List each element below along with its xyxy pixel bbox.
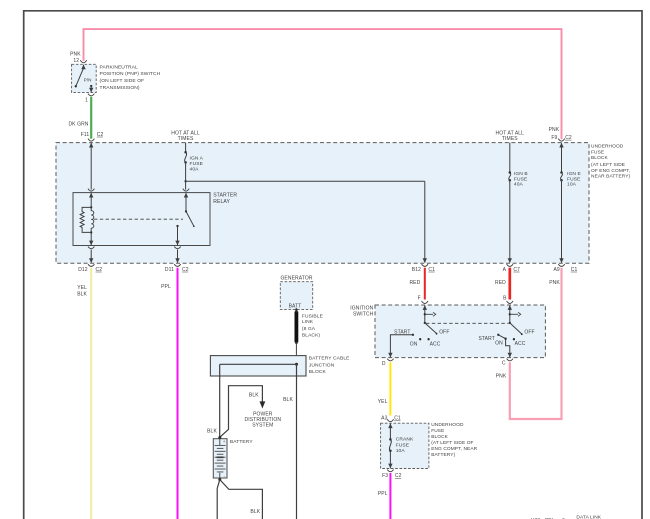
svg-text:POSITION (PNP) SWITCH: POSITION (PNP) SWITCH [100,71,161,77]
svg-text:IGNITION: IGNITION [350,305,373,311]
svg-text:D12: D12 [78,267,88,273]
svg-text:PNK: PNK [549,127,560,133]
svg-text:BLOCK: BLOCK [431,434,448,440]
svg-text:FUSE: FUSE [396,442,410,448]
svg-text:DK GRN: DK GRN [68,121,88,127]
svg-text:B12: B12 [412,267,421,273]
svg-text:BLK: BLK [207,429,217,435]
svg-text:TIMES: TIMES [502,136,518,142]
svg-text:(ON LEFT SIDE OF: (ON LEFT SIDE OF [100,78,145,84]
svg-text:GENERATOR: GENERATOR [280,276,312,282]
svg-text:1: 1 [85,98,88,104]
svg-text:F9: F9 [551,135,557,141]
svg-text:F11: F11 [81,132,90,138]
svg-text:F: F [418,296,421,302]
svg-text:BLOCK: BLOCK [309,369,327,375]
svg-text:YEL: YEL [77,285,87,291]
svg-text:IGN B: IGN B [514,171,528,177]
svg-text:PARK/NEUTRAL: PARK/NEUTRAL [100,64,139,70]
svg-text:UNDERHOOD: UNDERHOOD [431,422,464,428]
svg-text:BATT: BATT [289,303,302,309]
svg-text:BLK: BLK [250,509,260,515]
svg-text:BLK: BLK [283,397,293,403]
svg-text:PNK: PNK [496,374,507,380]
svg-text:PPL: PPL [378,491,388,497]
svg-text:FUSE: FUSE [431,428,444,434]
svg-text:12: 12 [73,58,79,64]
svg-text:YEL: YEL [378,399,388,405]
svg-text:F3: F3 [382,473,388,479]
svg-text:PNK: PNK [549,280,560,286]
svg-text:BLK: BLK [77,291,87,297]
svg-text:TRANSMISSION): TRANSMISSION) [100,85,140,91]
svg-text:NEAR BATTERY): NEAR BATTERY) [591,174,631,180]
svg-text:FUSE: FUSE [591,149,604,155]
svg-text:(AT LEFT SIDE OF: (AT LEFT SIDE OF [431,440,473,446]
svg-text:D11: D11 [165,267,174,273]
svg-text:40A: 40A [190,166,200,172]
svg-text:OFF: OFF [524,329,534,335]
svg-text:D: D [382,361,386,367]
svg-text:BATTERY): BATTERY) [431,452,455,458]
svg-text:RELAY: RELAY [213,199,230,205]
svg-text:PPL: PPL [161,284,171,290]
svg-text:FUSIBLE: FUSIBLE [302,314,324,320]
svg-text:RED: RED [495,280,506,286]
svg-text:CRANK: CRANK [396,437,414,443]
svg-text:A9: A9 [553,267,559,273]
svg-text:B: B [503,296,507,302]
svg-text:FUSE: FUSE [567,176,581,182]
svg-text:P/N: P/N [84,77,92,82]
svg-text:DATA LINK: DATA LINK [576,514,601,519]
svg-text:A: A [503,267,507,273]
svg-text:ON: ON [495,340,503,346]
svg-text:10A: 10A [396,448,406,454]
svg-text:BLOCK: BLOCK [591,155,608,161]
svg-text:10A: 10A [567,182,577,188]
svg-text:IGN E: IGN E [567,171,581,177]
svg-text:PNK: PNK [70,51,81,57]
svg-text:ACC: ACC [515,341,526,347]
svg-text:(8 GA: (8 GA [302,326,316,332]
svg-text:BLACK): BLACK) [302,333,321,339]
svg-text:A3: A3 [381,416,387,422]
svg-text:FUSE: FUSE [190,161,204,167]
svg-text:SYSTEM: SYSTEM [252,423,273,429]
svg-text:SWITCH: SWITCH [353,312,374,318]
svg-text:BLK: BLK [249,393,259,399]
svg-text:OFF: OFF [439,329,449,335]
svg-text:IGN A: IGN A [190,156,204,162]
svg-text:BATTERY CABLE: BATTERY CABLE [309,356,350,362]
svg-text:LINK: LINK [302,319,314,325]
svg-text:OF ENG COMPT,: OF ENG COMPT, [591,168,630,174]
svg-text:(AT LEFT SIDE: (AT LEFT SIDE [591,162,625,168]
svg-text:ACC: ACC [430,341,441,347]
svg-text:START: START [478,336,494,342]
svg-text:JUNCTION: JUNCTION [309,362,335,368]
svg-text:RED: RED [409,280,420,286]
svg-text:ON: ON [410,341,418,347]
svg-text:TIMES: TIMES [178,136,194,142]
svg-text:ENG COMPT, NEAR: ENG COMPT, NEAR [431,446,477,452]
svg-text:FUSE: FUSE [514,176,528,182]
svg-text:40A: 40A [514,182,524,188]
svg-text:STARTER: STARTER [213,193,237,199]
svg-text:UNDERHOOD: UNDERHOOD [591,143,624,149]
svg-text:C: C [502,361,506,367]
svg-text:BATTERY: BATTERY [230,439,253,445]
svg-text:+: + [223,439,226,444]
